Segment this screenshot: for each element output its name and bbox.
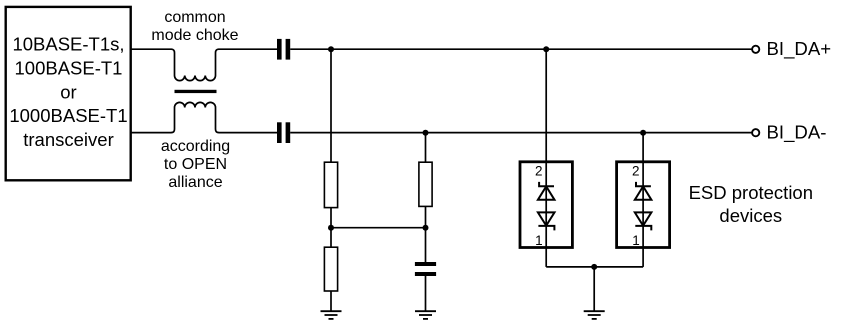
ground (below R3) (321, 311, 342, 319)
label: according to OPEN alliance (161, 138, 230, 191)
node junction dot at R2/C3 (423, 225, 429, 231)
wire through ESD1 box (545, 162, 547, 248)
wire ground bus between ESD1 and ESD2 (546, 266, 643, 268)
svg-text:to OPEN: to OPEN (164, 156, 227, 173)
wire junction R1 to junction R2 (331, 227, 426, 229)
terminal BI_DA- (752, 129, 759, 136)
wire top rail choke to capacitor (219, 48, 278, 50)
ESD device U2 box (617, 162, 670, 248)
svg-text:alliance: alliance (168, 174, 222, 191)
svg-text:10BASE-T1s,: 10BASE-T1s, (12, 34, 124, 55)
diode D1 (upper, ESD1) (538, 182, 555, 200)
common mode choke bottom winding (171, 102, 219, 132)
wire from bottom rail down to ESD2 (642, 133, 644, 163)
node junction dot top rail at R1 (328, 46, 334, 52)
capacitor C2 (series, bottom rail) (277, 122, 290, 143)
common mode choke top winding (171, 49, 219, 80)
transceiver box (6, 7, 131, 180)
diode D2 (lower, ESD1) (538, 212, 555, 230)
svg-text:2: 2 (632, 163, 640, 178)
wire bottom rail choke to capacitor (219, 132, 278, 134)
resistor R1 (324, 162, 337, 207)
svg-text:ESD protection: ESD protection (689, 182, 813, 203)
svg-text:1: 1 (535, 233, 543, 248)
wire C3 to ground (425, 276, 427, 312)
svg-text:transceiver: transceiver (23, 129, 113, 150)
wire top rail from box to choke (131, 48, 172, 50)
node junction dot R1/R3 (328, 225, 334, 231)
capacitor C3 (shunt to ground) (415, 262, 436, 276)
node junction dot ground bus (591, 264, 597, 270)
wire R2 to C3 (425, 206, 427, 262)
wire R3 to ground (330, 291, 332, 312)
resistor R3 (324, 247, 337, 291)
node junction dot bottom rail at ESD2 (640, 130, 646, 136)
wire bottom rail capacitor to BI_DA- terminal (290, 132, 751, 134)
wire from top rail down to R1 (330, 49, 332, 162)
diode D4 (lower, ESD2) (635, 212, 652, 230)
wire ESD1 to ground bus (545, 248, 547, 267)
svg-text:1: 1 (632, 233, 640, 248)
wire R1 to R3 (330, 208, 332, 248)
svg-text:1000BASE-T1: 1000BASE-T1 (9, 105, 127, 126)
transceiver box label (9, 34, 127, 151)
wire top rail capacitor to BI_DA+ terminal (290, 48, 751, 50)
ground (below C3) (415, 311, 436, 319)
diode D3 (upper, ESD2) (635, 182, 652, 200)
resistor R2 (419, 162, 432, 206)
label: common mode choke (151, 9, 238, 44)
label: ESD protection devices (689, 182, 813, 226)
common mode choke core bar (175, 90, 217, 93)
ground (below ESD devices) (584, 311, 605, 319)
wire from top rail down to ESD1 (crosses bottom rail) (545, 49, 547, 163)
svg-text:100BASE-T1: 100BASE-T1 (15, 57, 123, 78)
svg-text:or: or (60, 81, 76, 102)
wire bottom rail from box to choke (131, 132, 172, 134)
wire through ESD2 box (642, 162, 644, 248)
wire ESD2 to ground bus (642, 248, 644, 267)
wire ground bus to ground (593, 267, 595, 312)
terminal BI_DA+ (752, 46, 759, 53)
svg-text:mode choke: mode choke (151, 27, 238, 44)
svg-text:2: 2 (535, 163, 543, 178)
svg-text:BI_DA+: BI_DA+ (767, 38, 832, 60)
svg-text:common: common (164, 9, 225, 26)
svg-text:according: according (161, 138, 230, 155)
node junction dot bottom rail at R2 (423, 130, 429, 136)
ESD device U1 box (520, 162, 572, 248)
svg-text:devices: devices (719, 205, 782, 226)
node junction dot top rail at ESD1 (543, 46, 549, 52)
wire from bottom rail down to R2 (425, 133, 427, 163)
svg-text:BI_DA-: BI_DA- (767, 121, 827, 143)
capacitor C1 (series, top rail) (277, 39, 290, 60)
